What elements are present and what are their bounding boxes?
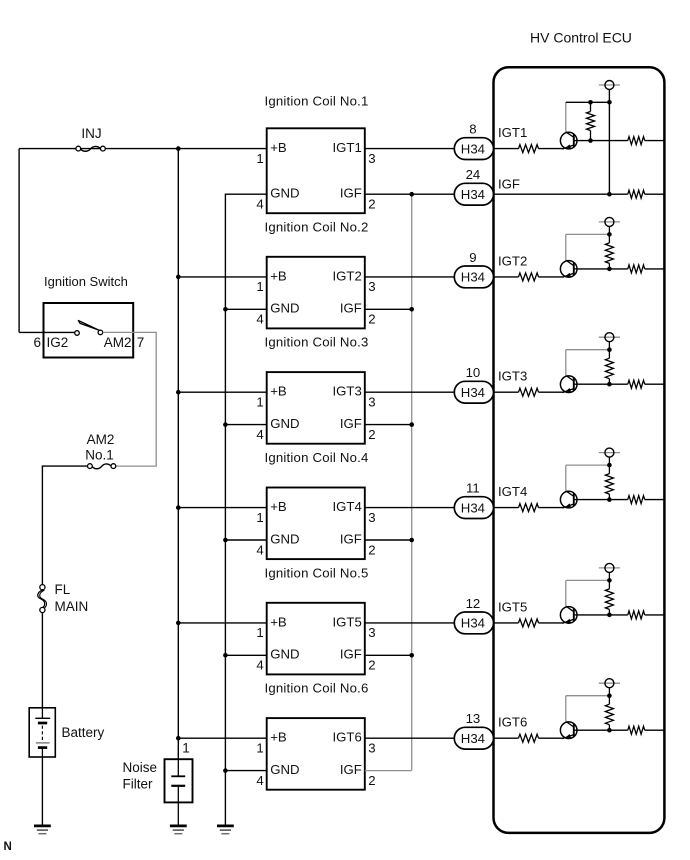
battery dashed cell link [41, 726, 43, 742]
pin 3 coil 6 [368, 741, 375, 756]
pin 4 coil 1 [256, 197, 263, 212]
svg-text:+B: +B [270, 140, 287, 155]
resistor R1b pull-up [587, 102, 595, 140]
svg-text:IGT1: IGT1 [332, 140, 361, 155]
svg-text:Ignition Coil No.1: Ignition Coil No.1 [265, 93, 369, 108]
transistor Q1 [560, 132, 577, 149]
pin 3 coil 2 [368, 279, 375, 294]
wire Q2 collector stub [565, 234, 567, 260]
junction power node 5 [607, 578, 612, 583]
label MAIN [55, 599, 89, 614]
wire IGT1 input [494, 148, 519, 150]
wire GND feed coil 4 [225, 539, 266, 541]
resistor R2c [628, 265, 645, 273]
wire +B feed coil 2 [178, 276, 266, 278]
resistor R6c [628, 726, 645, 734]
svg-text:GND: GND [270, 416, 299, 431]
resistor R3c [628, 380, 645, 388]
wire +B feed coil 6 [178, 737, 266, 739]
svg-text:4: 4 [256, 312, 263, 327]
power supply B+ 5 [599, 563, 620, 572]
pin 1 coil 1 [256, 151, 263, 166]
pin 4 coil 2 [256, 312, 263, 327]
wire Q6 collector top [566, 695, 610, 697]
wire +B feed coil 4 [178, 507, 266, 509]
junction R1b top [588, 100, 593, 105]
wire Q1 collector top [566, 101, 610, 103]
wire IGF coil 3 to bus [365, 424, 412, 426]
label IGF pin coil 5 [340, 647, 362, 662]
wire Q3 collector top [566, 349, 610, 351]
label Battery [62, 725, 105, 740]
wire GND feed coil 6 [225, 770, 266, 772]
pin 12 label [466, 596, 481, 611]
svg-text:2: 2 [368, 427, 375, 442]
svg-text:IGF: IGF [340, 186, 362, 201]
label IGF net [498, 177, 520, 192]
svg-text:4: 4 [256, 197, 263, 212]
resistor R5a input [519, 619, 539, 627]
pin 2 coil 1 [368, 197, 375, 212]
svg-text:MAIN: MAIN [55, 599, 89, 614]
ignition switch box SW1 [44, 303, 134, 358]
transistor Q3 [560, 375, 577, 392]
wire power stub 3 [608, 342, 610, 350]
transistor Q5 [560, 606, 577, 623]
svg-text:H34: H34 [461, 731, 485, 746]
label No.1 [85, 447, 114, 462]
svg-text:1: 1 [256, 395, 263, 410]
label IGT1 net [498, 125, 527, 140]
connector H34 pin 11 (IGT4) [454, 497, 493, 519]
junction GND bus coil 5 [223, 653, 228, 658]
wire IGT2 to connector [365, 276, 455, 278]
svg-text:+B: +B [270, 730, 287, 745]
switch contact IG2 [75, 331, 80, 336]
label IGT3 net [498, 369, 527, 384]
svg-text:+B: +B [270, 614, 287, 629]
junction R4b bottom [607, 497, 612, 502]
svg-text:IGT4: IGT4 [498, 484, 527, 499]
pin 2 coil 6 [368, 773, 375, 788]
wire power stub 6 [608, 688, 610, 696]
wire to transistor Q2 emitter [539, 276, 564, 278]
label +B coil 2 [270, 268, 287, 283]
wire IGT4 input [494, 507, 519, 509]
HV Control ECU label [530, 30, 632, 46]
pin 3 coil 3 [368, 395, 375, 410]
wire GND feed coil 3 [225, 424, 266, 426]
resistor R6a input [519, 734, 539, 742]
junction GND bus coil 3 [223, 422, 228, 427]
wire Q1 base line [577, 140, 628, 142]
pin 1 coil 5 [256, 625, 263, 640]
svg-text:2: 2 [368, 312, 375, 327]
svg-text:11: 11 [466, 481, 480, 496]
label +B coil 1 [270, 140, 287, 155]
connector H34 pin 8 (IGT1) [454, 138, 493, 160]
svg-text:Ignition Coil No.2: Ignition Coil No.2 [265, 219, 369, 234]
fuse INJ [76, 146, 105, 151]
junction +B bus coil 2 [176, 275, 181, 280]
transistor Q4 [560, 491, 577, 508]
wire GND bus [225, 194, 266, 825]
wire power stub 4 [608, 457, 610, 465]
label IGF pin coil 3 [340, 416, 362, 431]
label +B coil 6 [270, 730, 287, 745]
junction +B bus coil 4 [176, 505, 181, 510]
connector H34 pin 24 (IGF) [454, 183, 493, 205]
svg-text:3: 3 [368, 625, 375, 640]
svg-text:Battery: Battery [62, 725, 105, 740]
wire IG2 lead [19, 331, 75, 333]
svg-text:GND: GND [270, 186, 299, 201]
svg-text:3: 3 [368, 741, 375, 756]
svg-text:INJ: INJ [81, 126, 101, 141]
svg-text:24: 24 [466, 167, 481, 182]
svg-text:1: 1 [256, 625, 263, 640]
svg-text:IGF: IGF [340, 647, 362, 662]
power supply B+ 6 [599, 679, 620, 688]
label +B coil 5 [270, 614, 287, 629]
pin 24 label [466, 167, 481, 182]
label Ignition Coil No.3 [265, 335, 369, 350]
connector H34 pin 13 (IGT6) [454, 727, 493, 749]
svg-text:4: 4 [256, 542, 263, 557]
wire FL MAIN to battery [41, 613, 43, 708]
label INJ [81, 126, 101, 141]
ignition coil box T6 [267, 718, 365, 790]
ignition coil box T4 [267, 488, 365, 560]
wire +B feed coil 3 [178, 391, 266, 393]
pin 2 coil 4 [368, 542, 375, 557]
pin 4 coil 3 [256, 427, 263, 442]
pin 1 coil 4 [256, 510, 263, 525]
wire power to IGF line [608, 90, 610, 195]
svg-text:IGT2: IGT2 [332, 268, 361, 283]
svg-text:Filter: Filter [123, 777, 154, 792]
svg-text:IGF: IGF [498, 177, 520, 192]
svg-text:Ignition Switch: Ignition Switch [44, 274, 128, 289]
wire Q6 collector stub [565, 696, 567, 722]
pin 13 label [466, 711, 481, 726]
svg-text:+B: +B [270, 384, 287, 399]
junction +B bus coil 6 [176, 736, 181, 741]
svg-text:FL: FL [55, 582, 71, 597]
HV Control ECU box U1 [494, 67, 665, 833]
wire left rail [18, 149, 20, 333]
resistor R4b pull-up [605, 465, 613, 500]
ground noise filter [170, 826, 187, 834]
wire GND feed coil 2 [225, 308, 266, 310]
svg-text:IGT3: IGT3 [332, 384, 361, 399]
resistor R1c [628, 137, 645, 145]
wire IGT3 to connector [365, 391, 455, 393]
svg-text:H34: H34 [461, 270, 485, 285]
wire IGF coil 6 to bus [365, 770, 412, 772]
svg-text:3: 3 [368, 151, 375, 166]
ignition coil box T2 [267, 257, 365, 329]
wire fuse to battery rail [42, 466, 87, 585]
svg-text:2: 2 [368, 197, 375, 212]
svg-text:6: 6 [33, 335, 41, 350]
battery internal wire top [41, 708, 43, 719]
wire Q5 collector top [566, 579, 610, 581]
label Filter [123, 777, 154, 792]
svg-text:IGT2: IGT2 [498, 253, 527, 268]
wire R5c to edge [645, 614, 665, 616]
junction IGF bus coil 2 [409, 307, 414, 312]
svg-text:IGF: IGF [340, 531, 362, 546]
wire INJ row (left rail to +B bus to coil 1 +B) [19, 148, 267, 150]
label FL [55, 582, 71, 597]
svg-text:Ignition Coil No.4: Ignition Coil No.4 [265, 450, 369, 465]
svg-text:3: 3 [368, 395, 375, 410]
svg-text:3: 3 [368, 510, 375, 525]
label GND coil 1 [270, 186, 299, 201]
svg-text:GND: GND [270, 301, 299, 316]
svg-text:GND: GND [270, 647, 299, 662]
ignition coil box T5 [267, 603, 365, 675]
svg-text:13: 13 [466, 711, 481, 726]
wire IGF coil 1 to connector [365, 193, 455, 195]
wire +B feed coil 5 [178, 622, 266, 624]
wire R2c to edge [645, 268, 665, 270]
svg-text:IGT6: IGT6 [332, 730, 361, 745]
label IGT6 net [498, 715, 527, 730]
resistor R2a input [519, 273, 539, 281]
svg-text:4: 4 [256, 658, 263, 673]
wire R3c to edge [645, 383, 665, 385]
svg-text:AM2: AM2 [87, 432, 115, 447]
svg-text:1: 1 [182, 741, 190, 756]
svg-text:2: 2 [368, 773, 375, 788]
page marker N [4, 841, 12, 853]
wire R1c to edge [645, 140, 665, 142]
svg-text:IG2: IG2 [47, 335, 69, 350]
wire IGT6 to connector [365, 737, 455, 739]
junction power node 1 [607, 100, 612, 105]
wire Q3 base line [577, 383, 628, 385]
label Ignition Switch [44, 274, 128, 289]
wire power stub 5 [608, 572, 610, 580]
power supply B+ 2 [599, 217, 620, 226]
wire to transistor Q1 emitter [539, 148, 564, 150]
junction IGF bus coil 5 [409, 653, 414, 658]
svg-text:IGF: IGF [340, 301, 362, 316]
label GND coil 2 [270, 301, 299, 316]
junction power node 3 [607, 347, 612, 352]
pin 4 coil 5 [256, 658, 263, 673]
power supply B+ 4 [599, 448, 620, 457]
svg-text:Ignition Coil No.5: Ignition Coil No.5 [265, 565, 369, 580]
wire IGT1 to connector [365, 148, 455, 150]
resistor R2b pull-up [605, 234, 613, 269]
svg-text:IGT4: IGT4 [332, 499, 361, 514]
svg-text:2: 2 [368, 542, 375, 557]
junction +B bus coil 5 [176, 621, 181, 626]
wire IGF coil 4 to bus [365, 539, 412, 541]
ground battery [34, 826, 51, 834]
fusible link FL MAIN [38, 585, 47, 613]
resistor R4a input [519, 504, 539, 512]
label IG2 [47, 335, 69, 350]
junction +B bus coil 3 [176, 390, 181, 395]
label AM2 terminal [104, 335, 132, 350]
wire +B bus [177, 149, 179, 760]
wire IGT5 to connector [365, 622, 455, 624]
svg-text:H34: H34 [461, 616, 485, 631]
svg-text:10: 10 [466, 365, 481, 380]
pin 9 label [469, 250, 476, 265]
wire Q2 base line [577, 268, 628, 270]
label IGT2 net [498, 253, 527, 268]
svg-text:IGT5: IGT5 [498, 599, 527, 614]
label +B coil 3 [270, 384, 287, 399]
wire Q5 collector stub [565, 580, 567, 606]
svg-text:IGT1: IGT1 [498, 125, 527, 140]
svg-text:1: 1 [256, 741, 263, 756]
wire Q6 base line [577, 729, 628, 731]
wire IGF to edge [645, 193, 665, 195]
wire IGT6 input [494, 737, 519, 739]
ignition coil box T3 [267, 372, 365, 444]
ignition coil box T1 [267, 128, 365, 213]
junction power node 4 [607, 463, 612, 468]
power supply B+ 3 [599, 333, 620, 342]
junction GND bus coil 4 [223, 538, 228, 543]
junction IGF bus coil 4 [409, 538, 414, 543]
battery plate long bottom [36, 742, 50, 744]
pin 8 label [469, 122, 476, 137]
junction GND bus coil 6 [223, 768, 228, 773]
svg-text:N: N [4, 841, 12, 853]
svg-text:H34: H34 [461, 187, 485, 202]
pin 2 coil 2 [368, 312, 375, 327]
svg-text:9: 9 [469, 250, 476, 265]
pin 11 label [466, 481, 480, 496]
junction IGF bus coil 3 [409, 422, 414, 427]
switch contact AM2 [98, 330, 103, 335]
pin 3 coil 1 [368, 151, 375, 166]
svg-text:8: 8 [469, 122, 476, 137]
wire IGF line in ECU [494, 193, 628, 195]
power supply B+ 1 [599, 81, 620, 90]
battery plate short top [38, 722, 47, 725]
switch lever blade [78, 321, 99, 331]
junction R1b bottom [588, 138, 593, 143]
svg-text:No.1: No.1 [85, 447, 114, 462]
battery plate short bottom [38, 746, 47, 749]
pin 2 coil 5 [368, 658, 375, 673]
wire Q1 collector stub [565, 102, 567, 132]
battery internal wire bottom [41, 748, 43, 757]
pin 3 coil 5 [368, 625, 375, 640]
svg-text:2: 2 [368, 658, 375, 673]
label AM2 fuse [87, 432, 115, 447]
label IGT4 net [498, 484, 527, 499]
capacitor C1 in noise filter [171, 759, 185, 825]
pin 7 label [137, 335, 145, 350]
svg-text:3: 3 [368, 279, 375, 294]
pin 2 coil 3 [368, 427, 375, 442]
connector H34 pin 9 (IGT2) [454, 266, 493, 288]
wire AM2 lead to fuse [103, 332, 157, 466]
label IGF pin coil 4 [340, 531, 362, 546]
label GND coil 5 [270, 647, 299, 662]
svg-text:GND: GND [270, 762, 299, 777]
wire Q5 base line [577, 614, 628, 616]
wire power stub 2 [608, 226, 610, 234]
wire to transistor Q4 emitter [539, 507, 564, 509]
svg-text:4: 4 [256, 427, 263, 442]
svg-text:12: 12 [466, 596, 481, 611]
wire IGF coil 5 to bus [365, 654, 412, 656]
junction GND bus coil 2 [223, 307, 228, 312]
junction +B bus top [176, 146, 181, 151]
fuse AM2 No.1 [88, 464, 116, 469]
wire Q3 collector stub [565, 350, 567, 376]
resistor R3b pull-up [605, 350, 613, 385]
svg-text:+B: +B [270, 499, 287, 514]
junction R6b bottom [607, 728, 612, 733]
label IGT3 pin [332, 384, 361, 399]
svg-text:IGT6: IGT6 [498, 715, 527, 730]
junction power node 2 [607, 232, 612, 237]
svg-text:Ignition Coil No.3: Ignition Coil No.3 [265, 335, 369, 350]
label IGF pin coil 6 [340, 762, 362, 777]
svg-text:1: 1 [256, 279, 263, 294]
svg-text:7: 7 [137, 335, 145, 350]
svg-text:IGT5: IGT5 [332, 614, 361, 629]
wire Q4 base line [577, 499, 628, 501]
resistor R1d IGF [628, 190, 645, 198]
label IGF pin coil 2 [340, 301, 362, 316]
label Ignition Coil No.1 [265, 93, 369, 108]
label GND coil 3 [270, 416, 299, 431]
wire battery to ground [41, 757, 43, 825]
svg-text:IGF: IGF [340, 416, 362, 431]
junction power node 6 [607, 693, 612, 698]
ground GND bus [217, 826, 234, 834]
svg-text:H34: H34 [461, 141, 485, 156]
pin 1 coil 6 [256, 741, 263, 756]
label Noise [123, 760, 158, 775]
pin 3 coil 4 [368, 510, 375, 525]
label Ignition Coil No.6 [265, 681, 369, 696]
resistor R5c [628, 611, 645, 619]
wire to transistor Q3 emitter [539, 391, 564, 393]
label +B coil 4 [270, 499, 287, 514]
transistor Q2 [560, 260, 577, 277]
junction R5b bottom [607, 613, 612, 618]
resistor R3a input [519, 388, 539, 396]
svg-text:HV Control ECU: HV Control ECU [530, 30, 632, 46]
wire IGT3 input [494, 391, 519, 393]
pin 4 coil 4 [256, 542, 263, 557]
wire IGF coil 2 to bus [365, 308, 412, 310]
label Ignition Coil No.2 [265, 219, 369, 234]
svg-text:GND: GND [270, 531, 299, 546]
label GND coil 6 [270, 762, 299, 777]
resistor R6b pull-up [605, 696, 613, 731]
transistor Q6 [560, 721, 577, 738]
wire IGT5 input [494, 622, 519, 624]
pin 10 label [466, 365, 481, 380]
pin 1 label noise filter [182, 741, 190, 756]
pin 4 coil 6 [256, 773, 263, 788]
wire R4c to edge [645, 499, 665, 501]
